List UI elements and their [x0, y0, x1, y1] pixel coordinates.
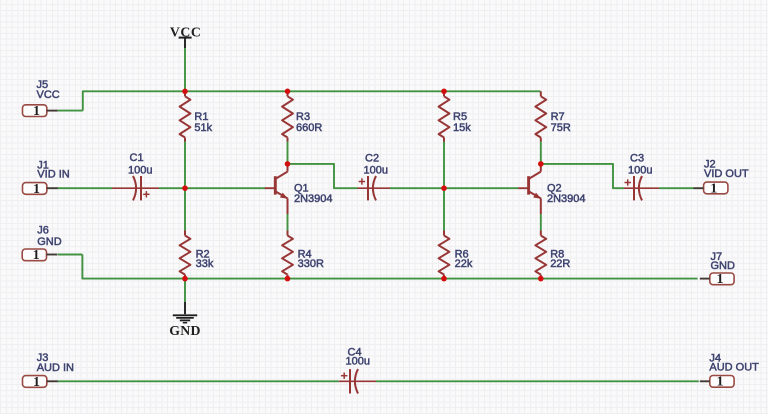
svg-text:VID OUT: VID OUT	[704, 168, 749, 180]
wire R3 to Q1 collector node	[287, 142, 289, 164]
svg-text:VID IN: VID IN	[37, 168, 69, 180]
capacitor C1 100u	[112, 152, 159, 200]
svg-text:660R: 660R	[296, 122, 322, 134]
svg-text:51k: 51k	[194, 122, 212, 134]
wire C3 to J2	[659, 187, 694, 189]
svg-text:1: 1	[710, 181, 717, 196]
junction node B (R5/R6/C2/Q2 base)	[441, 185, 447, 191]
junction R8 bottom on GND rail	[538, 276, 544, 282]
svg-text:100u: 100u	[628, 164, 652, 176]
svg-text:330R: 330R	[298, 258, 324, 270]
wire node A to Q1 base	[185, 187, 265, 189]
svg-text:22k: 22k	[455, 258, 473, 270]
resistor R5 15k	[439, 91, 472, 141]
connector J1 pin 1 (VID IN)	[23, 159, 70, 197]
wire J5 to VCC rail	[58, 110, 83, 112]
svg-text:15k: 15k	[453, 122, 471, 134]
wire node B down to R6	[443, 188, 445, 230]
svg-text:1: 1	[33, 375, 40, 390]
wire node A down to R2	[184, 188, 186, 230]
svg-text:1: 1	[716, 375, 723, 390]
svg-text:GND: GND	[169, 323, 201, 338]
svg-text:33k: 33k	[196, 258, 214, 270]
wire VCC stem from power symbol	[184, 48, 186, 91]
wire AUD row J3 to C4	[58, 380, 339, 382]
wire VCC rail net	[83, 91, 541, 110]
wire C1 to node A	[159, 187, 185, 189]
junction R4 bottom on GND rail	[285, 276, 291, 282]
svg-text:1: 1	[716, 272, 723, 287]
junction Q2 collector node	[538, 161, 544, 167]
connector J4 pin 1 (AUD OUT)	[700, 352, 759, 389]
ground symbol GND	[169, 279, 201, 338]
wire J6 to GND rail	[58, 254, 82, 256]
wire GND rail net	[82, 255, 697, 279]
wire R1 to node A	[184, 142, 186, 189]
connector J5 pin 1 (VCC)	[23, 79, 60, 119]
wire R5 to node B	[443, 142, 445, 189]
transistor Q2 2N3904	[518, 164, 585, 215]
capacitor C4 100u	[339, 346, 376, 393]
junction R6 bottom on GND rail	[441, 276, 447, 282]
svg-text:75R: 75R	[551, 122, 571, 134]
svg-text:GND: GND	[711, 260, 736, 272]
svg-text:C1: C1	[130, 152, 144, 164]
junction R5 top on VCC rail	[441, 89, 447, 95]
junction R1 top on VCC rail	[182, 89, 188, 95]
resistor R7 75R	[535, 91, 570, 141]
svg-text:AUD IN: AUD IN	[37, 362, 74, 374]
svg-text:100u: 100u	[128, 164, 152, 176]
svg-text:GND: GND	[37, 236, 62, 248]
svg-text:100u: 100u	[346, 356, 370, 368]
svg-text:1: 1	[33, 182, 40, 197]
connector J6 pin 1 (GND)	[22, 225, 62, 264]
svg-text:1: 1	[33, 248, 40, 263]
transistor Q1 2N3904	[265, 164, 333, 215]
svg-text:22R: 22R	[550, 258, 570, 270]
svg-text:C3: C3	[630, 153, 644, 165]
wire R7 to Q2 collector node	[540, 142, 542, 164]
wire Q2 collector to C3	[541, 164, 624, 188]
connector J2 pin 1 (VID OUT)	[694, 159, 749, 197]
junction node A (R1/R2/C1/Q1 base)	[182, 185, 188, 191]
resistor R1 51k	[180, 91, 213, 141]
wire node B to Q2 base	[444, 187, 518, 189]
junction R2 bottom on GND rail	[182, 276, 188, 282]
svg-text:AUD OUT: AUD OUT	[709, 362, 759, 374]
svg-text:C2: C2	[365, 153, 379, 165]
wire C4 to J4	[376, 380, 699, 382]
wire signal row J1 to C1	[58, 187, 113, 189]
junction R3 top on VCC rail	[285, 89, 291, 95]
svg-text:100u: 100u	[364, 164, 388, 176]
resistor R2 33k	[180, 231, 214, 279]
svg-text:VCC: VCC	[37, 89, 60, 101]
connector J3 pin 1 (AUD IN)	[23, 352, 75, 390]
resistor R8 22R	[535, 231, 570, 279]
wire Q2 emitter to R8	[540, 214, 542, 231]
resistor R6 22k	[439, 231, 473, 279]
resistor R4 330R	[282, 231, 324, 279]
svg-text:2N3904: 2N3904	[294, 193, 333, 205]
power symbol VCC	[170, 24, 201, 48]
svg-text:2N3904: 2N3904	[547, 193, 586, 205]
svg-text:1: 1	[33, 104, 40, 119]
wire C2 to node B	[390, 187, 444, 189]
capacitor C2 100u	[358, 153, 391, 201]
connector J7 pin 1 (GND)	[700, 251, 735, 287]
capacitor C3 100u	[624, 153, 659, 201]
resistor R3 660R	[282, 91, 322, 141]
wire Q1 collector to C2	[288, 164, 358, 188]
wire Q1 emitter to R4	[287, 214, 289, 231]
junction Q1 collector node	[285, 161, 291, 167]
svg-text:J6: J6	[37, 225, 49, 237]
